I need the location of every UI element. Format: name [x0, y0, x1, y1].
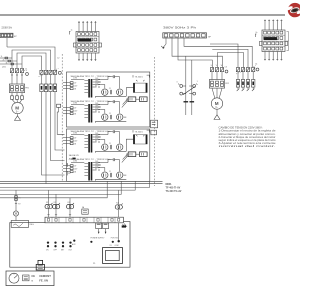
motor contacts row2 — [11, 93, 24, 100]
secondary taps row1 — [93, 78, 108, 88]
fan wires to pair connector — [122, 99, 128, 118]
CE mark — [31, 274, 35, 283]
svg-text:C1: C1 — [109, 113, 111, 115]
bus wire out2 — [0, 181, 135, 190]
svg-text:S: S — [31, 280, 33, 282]
strip right ticks — [122, 224, 127, 228]
output arrows below strip — [98, 229, 107, 234]
fuse icon box — [23, 275, 29, 281]
svg-text:COM: COM — [115, 245, 120, 247]
disconnector QS2 contacts — [39, 58, 62, 77]
module box A — [67, 72, 150, 127]
svg-text:nominal del motor.: nominal del motor. — [219, 145, 277, 148]
strip drop T — [184, 38, 252, 68]
thyristor 2 row3 — [117, 144, 123, 150]
pair connector CD — [128, 152, 147, 157]
labels UVW — [211, 65, 223, 67]
svg-text:8V: 8V — [95, 169, 98, 171]
transformer row3 — [84, 134, 92, 153]
feed wire row3b — [55, 92, 65, 150]
svg-text:TF-400 TI-AV: TF-400 TI-AV — [166, 187, 181, 190]
svg-text:9P: 9P — [286, 41, 289, 43]
svg-text:TS 400 D: TS 400 D — [135, 131, 144, 133]
stub wire c — [0, 62, 22, 65]
svg-text:F1: F1 — [18, 197, 20, 199]
svg-text:ON: ON — [46, 249, 49, 251]
svg-text:8V: 8V — [95, 86, 98, 88]
svg-text:FE_UN: FE_UN — [39, 279, 48, 283]
svg-text:alimentacion y conectar al pun: alimentacion y conectar al punto comun. — [219, 133, 276, 136]
svg-text:FR1: FR1 — [25, 88, 29, 90]
terminal strip X2 — [45, 217, 123, 223]
secondary taps row2 — [93, 103, 108, 113]
output wire to box — [126, 88, 133, 97]
top rail wire — [0, 14, 285, 16]
model list text — [166, 183, 182, 193]
secondary taps row4 — [93, 161, 108, 171]
staircase wire 3 — [217, 53, 243, 68]
feed wire row3a — [57, 107, 64, 134]
fuse block FU2 — [236, 72, 255, 91]
svg-text:38: 38 — [74, 114, 76, 116]
svg-text:FOR TIG: FOR TIG — [111, 238, 119, 240]
gate cap row2 — [109, 113, 112, 119]
svg-text:COM: COM — [73, 161, 78, 163]
aux fuse box near K3 — [82, 206, 88, 214]
svg-text:K2: K2 — [54, 202, 56, 204]
potentiometer REG — [11, 221, 34, 228]
fuse block FU1 — [40, 75, 57, 92]
supply labels — [91, 238, 119, 240]
svg-text:1-Desconectar el neutro de la: 1-Desconectar el neutro de la regleta de — [219, 130, 277, 133]
svg-text:2L: 2L — [3, 59, 5, 61]
gauge icon — [9, 273, 19, 283]
connector grid J1 — [73, 32, 101, 54]
input pins row4 — [63, 161, 84, 174]
pilot lamp H1 — [13, 211, 18, 221]
svg-text:24V: 24V — [95, 133, 99, 135]
dashed border right — [153, 57, 155, 186]
svg-text:CEMONT: CEMONT — [39, 274, 51, 278]
changeover switch SW1 — [177, 81, 198, 95]
staircase wire 2 — [212, 49, 248, 67]
feed wire to bus — [45, 92, 47, 184]
mains terminal strip X1 — [163, 33, 212, 39]
stub wire a — [0, 56, 12, 59]
transformer row2 — [84, 104, 92, 123]
output wire to box — [126, 139, 133, 151]
svg-text:K4: K4 — [116, 202, 118, 204]
svg-text:MOD.: MOD. — [166, 183, 173, 186]
control box outline — [10, 222, 130, 268]
breaker QS1 contacts — [2, 67, 24, 77]
svg-text:24V: 24V — [95, 103, 99, 105]
grid wires down J2 — [264, 52, 282, 61]
bus line top — [0, 180, 163, 182]
svg-text:380V 50Hz 3 Ph: 380V 50Hz 3 Ph — [163, 28, 197, 30]
module box B — [67, 129, 150, 181]
svg-text:C1: C1 — [25, 68, 27, 70]
svg-text:0: 0 — [177, 82, 178, 84]
relay drop K3 — [67, 198, 75, 217]
svg-text:K1: K1 — [46, 202, 48, 204]
snubber cap row3 — [108, 130, 120, 143]
svg-text:POWER SUPPLY: POWER SUPPLY — [91, 238, 106, 240]
dashed border left — [61, 54, 63, 181]
output rail row2 — [96, 121, 127, 123]
svg-text:CE: CE — [31, 274, 35, 278]
rating plate box — [6, 271, 54, 286]
thermal relay FR2 — [209, 72, 229, 88]
snubber cap row2 — [108, 100, 120, 113]
svg-text:FR2: FR2 — [225, 83, 229, 85]
switch feed 2 — [191, 60, 193, 115]
svg-text:24V: 24V — [74, 111, 78, 113]
grid J1 label — [69, 30, 72, 35]
meter square — [103, 245, 123, 263]
svg-text:18V: 18V — [95, 81, 99, 83]
notes text CAMBIO DE TENSION — [219, 127, 277, 149]
svg-text:TS 400 D: TS 400 D — [135, 76, 144, 78]
output rail row4 — [96, 179, 127, 181]
strip sub boxes — [96, 223, 109, 229]
contactor KM2 contacts — [210, 66, 228, 73]
svg-text:C1: C1 — [109, 88, 111, 90]
salida labels — [67, 154, 80, 175]
fan wires to pair connector — [122, 154, 128, 176]
feed wire row4b — [42, 92, 65, 175]
svg-text:SET: SET — [61, 249, 64, 251]
relay drop K1 — [45, 190, 53, 217]
svg-text:OUT: OUT — [68, 249, 72, 251]
output rail row1 — [96, 96, 127, 98]
svg-text:0V: 0V — [74, 138, 77, 140]
control drop F1 — [15, 190, 21, 211]
bus wire N — [22, 56, 42, 70]
svg-text:C1: C1 — [109, 171, 111, 173]
grid J2 label — [255, 32, 289, 43]
pair connector AB — [128, 97, 147, 102]
bus wire L1 — [7, 47, 55, 70]
input terminal strip X0 — [0, 33, 17, 38]
feed wire row4a — [51, 92, 65, 161]
svg-text:0V: 0V — [74, 166, 77, 168]
svg-text:PL: PL — [93, 263, 96, 265]
aux tap box — [57, 104, 61, 107]
output rail row3 — [96, 151, 127, 153]
svg-text:F2: F2 — [18, 204, 20, 206]
svg-text:V1: V1 — [110, 245, 112, 247]
relay drop K4 — [115, 190, 122, 240]
svg-text:24V: 24V — [74, 86, 78, 88]
svg-text:12V: 12V — [95, 83, 99, 85]
svg-text:1: 1 — [197, 81, 198, 83]
bus wire out3 — [0, 181, 121, 194]
svg-text:24V: 24V — [74, 141, 78, 143]
svg-text:C1: C1 — [109, 143, 111, 145]
earth drop — [161, 38, 166, 49]
transformer row1 — [84, 79, 92, 98]
logo — [286, 3, 304, 17]
grid wires up J2 — [264, 20, 282, 31]
disconnector QS3 contacts — [236, 64, 259, 74]
svg-text:segun indica el esquema en la: segun indica el esquema en la placa del … — [219, 139, 277, 142]
bus line 2 — [0, 183, 163, 185]
svg-text:24V: 24V — [95, 78, 99, 80]
staircase wire 5 — [210, 44, 238, 68]
svg-text:8V: 8V — [95, 141, 98, 143]
contactor KM1 link — [24, 68, 28, 75]
thyristor 1 row2 — [102, 110, 108, 121]
stub wire b — [0, 59, 17, 61]
wire strip to bus — [6, 38, 8, 47]
aux box on dashed border — [151, 120, 158, 135]
motor M1 — [12, 102, 23, 113]
svg-text:220/380V 50Hz: 220/380V 50Hz — [2, 27, 13, 29]
svg-text:2c: 2c — [256, 32, 258, 34]
switch terminal bars — [184, 101, 195, 102]
indicator dot pairs — [46, 241, 72, 251]
motor M2 — [211, 98, 222, 109]
panel plug — [36, 260, 44, 270]
svg-text:K3: K3 — [68, 202, 70, 204]
svg-text:REG: REG — [30, 224, 35, 226]
svg-text:24V: 24V — [74, 169, 78, 171]
strip drop R — [172, 38, 222, 68]
junction dots — [72, 240, 120, 247]
input pins row2 — [63, 103, 84, 116]
svg-text:COM: COM — [73, 133, 78, 135]
svg-text:38: 38 — [74, 144, 76, 146]
gate cap row4 — [109, 171, 112, 177]
svg-text:OFF: OFF — [53, 249, 56, 251]
grid J2 side bracket — [287, 32, 289, 51]
thyristor 1 row3 — [102, 140, 108, 151]
svg-text:C4: C4 — [255, 64, 257, 66]
grid wires up J1 — [78, 21, 96, 32]
wires to motor M1 — [12, 99, 22, 103]
snubber cap row4 — [108, 158, 120, 171]
svg-text:1c: 1c — [71, 30, 73, 32]
svg-text:24V: 24V — [95, 161, 99, 163]
svg-text:12V: 12V — [95, 166, 99, 168]
svg-text:0V: 0V — [74, 108, 77, 110]
svg-text:TS-400 TC-AV: TS-400 TC-AV — [166, 190, 182, 193]
svg-text:3~: 3~ — [16, 111, 19, 114]
snubber cap row1 — [108, 75, 120, 88]
input pins row3 — [63, 133, 84, 146]
svg-text:18V: 18V — [95, 106, 99, 108]
thyristor 1 row1 — [102, 85, 108, 96]
transformer row4 — [84, 162, 92, 181]
gate cap row3 — [109, 143, 112, 149]
svg-text:3L: 3L — [6, 62, 8, 64]
svg-text:CAMBIO DE TENSION 220V-380V:: CAMBIO DE TENSION 220V-380V: — [219, 127, 263, 130]
input pins row1 — [63, 78, 84, 91]
gate cap row1 — [109, 88, 112, 94]
svg-text:AUX: AUX — [72, 243, 76, 246]
svg-text:4P: 4P — [14, 36, 17, 38]
svg-text:18V: 18V — [95, 136, 99, 138]
svg-text:18V: 18V — [95, 164, 99, 166]
svg-text:3-Ajustar el rele termico a la: 3-Ajustar el rele termico a la corriente — [219, 142, 277, 145]
thyristor 2 row4 — [117, 172, 123, 178]
bus wire out4 — [0, 181, 107, 198]
bus wire L3 — [17, 53, 46, 70]
svg-text:COM: COM — [73, 103, 78, 105]
thyristor 2 row1 — [117, 89, 123, 95]
svg-text:PE: PE — [68, 173, 71, 175]
svg-text:38: 38 — [74, 89, 76, 91]
thyristor 1 row4 — [102, 168, 108, 179]
thermal relay FR1 — [9, 77, 29, 93]
secondary taps row3 — [93, 133, 108, 143]
svg-text:12V: 12V — [95, 138, 99, 140]
svg-text:QS1: QS1 — [2, 67, 6, 69]
svg-text:3~: 3~ — [215, 106, 218, 109]
thyristor 2 row2 — [117, 114, 123, 120]
output box TS3 — [133, 130, 149, 144]
wires to motor M2 — [212, 88, 222, 99]
svg-text:COM: COM — [73, 78, 78, 80]
connector grid J2 — [259, 30, 287, 52]
output box TS1 — [133, 75, 149, 92]
bus wire out1 — [0, 181, 149, 187]
svg-text:C3: C3 — [225, 66, 227, 68]
relay drop K2 — [53, 194, 61, 217]
svg-text:12V: 12V — [95, 108, 99, 110]
svg-text:C2: C2 — [57, 58, 59, 60]
svg-text:SALIDA 24V: SALIDA 24V — [69, 154, 80, 157]
svg-text:38: 38 — [74, 172, 76, 174]
staircase wire 4 — [216, 53, 218, 68]
grid wires down J1 — [78, 53, 96, 61]
bus wire L2 — [12, 50, 51, 70]
brand text — [39, 274, 51, 283]
svg-text:1L: 1L — [1, 56, 3, 58]
strip drop S — [178, 38, 212, 68]
svg-text:2-Conectar el bloque de conexi: 2-Conectar el bloque de conexiones del m… — [219, 136, 276, 139]
svg-text:8P: 8P — [208, 36, 211, 38]
delta symbol M2 — [214, 109, 220, 119]
svg-text:8V: 8V — [95, 111, 98, 113]
switch feed 1 — [185, 56, 187, 115]
delta symbol M1 — [15, 114, 21, 121]
svg-text:0V: 0V — [74, 83, 77, 85]
